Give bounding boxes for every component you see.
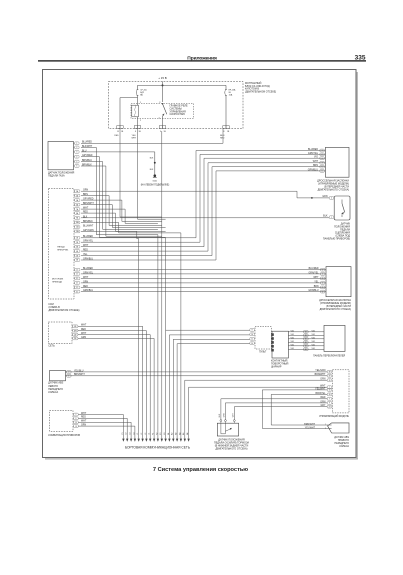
wire J5 pin to bus arrow x=131.1 — [78, 422, 131, 439]
svg-text:5B: 5B — [76, 255, 78, 257]
wire net BRN/YEL U1 pin10 to ABS right pin1 — [271, 394, 331, 425]
bus arrowhead x=150.2 — [149, 439, 151, 442]
pin 2 J1 — [75, 146, 80, 149]
wire from J2 pin 12A via band — [81, 231, 139, 438]
pin 16 P3 — [250, 333, 255, 336]
pin 2B J2 — [75, 241, 80, 244]
pin 2 J5 — [74, 413, 79, 416]
clock spring left pin 4 — [271, 345, 274, 348]
pin 12A J2 — [75, 230, 80, 233]
pin 10 U1 — [327, 393, 332, 396]
wire from J2 pin 8A via band — [81, 213, 166, 231]
svg-text:6: 6 — [76, 166, 77, 168]
svg-text:VIO: VIO — [291, 341, 295, 343]
wire +15 right branch — [163, 84, 227, 86]
svg-text:ПАНЕЛЬ ПЕРЕКЛЮЧАТЕЛЕЙ: ПАНЕЛЬ ПЕРЕКЛЮЧАТЕЛЕЙ — [313, 354, 345, 357]
wire clock spring row 3 — [288, 338, 324, 340]
bus arrowhead x=184.8 — [184, 439, 186, 442]
pin 18 J5 — [74, 425, 79, 428]
svg-text:C3: C3 — [130, 432, 132, 434]
svg-text:A3: A3 — [175, 433, 178, 435]
svg-text:L1: L1 — [137, 433, 139, 435]
pin 19 U1 — [327, 379, 332, 382]
svg-text:4: 4 — [76, 156, 77, 158]
wire BLU/RED fuse box to J1 pin1 — [81, 129, 223, 144]
wire net GRN U1 pin9 from pedal sensor pin2 — [225, 403, 327, 420]
svg-text:6B: 6B — [76, 260, 78, 262]
clock spring module — [272, 331, 288, 358]
pin R1 at x=220.9 — [220, 420, 222, 422]
svg-text:RED: RED — [220, 137, 225, 139]
svg-text:14: 14 — [75, 422, 77, 424]
pin 4 P2 — [320, 282, 325, 285]
wire branch to pin left — [120, 97, 138, 99]
connector J1 accel pedal sensor — [48, 142, 74, 170]
svg-text:VIO: VIO — [312, 348, 316, 350]
wire net C3 motor2 to actuator2 — [81, 277, 325, 279]
pin 4B J2 — [75, 250, 80, 253]
pin 6A J2 — [75, 203, 80, 206]
svg-text:1: 1 — [76, 143, 77, 145]
svg-text:WHT: WHT — [132, 137, 137, 139]
wire from J1 pin 2 via band — [81, 147, 158, 438]
bus arrowhead x=142.6 — [141, 439, 143, 442]
svg-text:A4: A4 — [178, 433, 181, 435]
pin 6 P2 — [320, 290, 325, 293]
svg-text:КОЛЕСА: КОЛЕСА — [48, 391, 58, 394]
wire net GRY U1 pin23 from pedal sensor pin3 — [234, 407, 327, 420]
pin 6 J1 — [75, 165, 80, 168]
wire net C1 motor2 to actuator2 — [81, 269, 325, 271]
pin 1 J4 — [67, 374, 72, 377]
wire +15 left branch — [138, 84, 163, 86]
connector pins 8/1B at x=137.5 — [134, 126, 137, 129]
pin 4 J1 — [75, 155, 80, 158]
svg-text:K1: K1 — [153, 433, 155, 435]
clock spring left pin 5 — [271, 349, 274, 352]
wire J5 pin to bus arrow x=127.2 — [78, 418, 127, 439]
svg-text:3B: 3B — [76, 246, 78, 248]
wire from J1 pin 4 via band — [81, 157, 166, 439]
clock spring left pin 2 — [271, 337, 274, 340]
wire steering row y=343.7 — [177, 343, 250, 345]
svg-text:3: 3 — [76, 152, 77, 154]
svg-text:C1: C1 — [122, 432, 124, 434]
svg-text:2: 2 — [76, 147, 77, 149]
pin 7 U1 — [327, 386, 332, 389]
svg-text:VIO: VIO — [291, 334, 295, 336]
svg-text:КОЛЕСА: КОЛЕСА — [339, 445, 349, 448]
wire J5 pin to bus arrow x=134.9 — [78, 426, 135, 439]
wire J1 pin3 to ground branch — [81, 151, 155, 153]
svg-text:ДВИГАТЕЛЬНОГО ОТСЕКА): ДВИГАТЕЛЬНОГО ОТСЕКА) — [320, 308, 352, 311]
relay K1 dashed outline — [131, 104, 194, 119]
svg-text:K3: K3 — [160, 433, 162, 435]
wire ground drop — [154, 152, 156, 176]
pin 4 P1 — [320, 161, 325, 164]
bus arrowhead x=180.9 — [180, 439, 182, 442]
pin 5 P2 — [320, 286, 325, 289]
wire net Z2 actuator1 to motor — [81, 154, 324, 242]
svg-text:G201: G201 — [152, 181, 157, 183]
svg-text:16: 16 — [251, 334, 253, 336]
svg-text:K4: K4 — [164, 433, 166, 435]
bus arrowhead x=154.1 — [153, 439, 155, 442]
fuse EF-15A — [225, 85, 227, 89]
wire net Z1 actuator1 to motor — [81, 151, 324, 238]
svg-text:ПРИВОДА: ПРИВОДА — [52, 281, 62, 284]
wire down x120 — [119, 98, 121, 126]
wire net C4 motor2 to actuator2 — [81, 282, 325, 284]
bus arrowhead x=134.9 — [134, 439, 136, 442]
bus arrowhead x=188.6 — [187, 439, 189, 442]
svg-text:ПУЛЬТ: ПУЛЬТ — [259, 351, 267, 353]
svg-text:A5: A5 — [182, 433, 185, 435]
pin 1 P1 — [320, 149, 325, 152]
frame shadow bottom — [45, 458, 358, 460]
svg-text:(НА ЛЕВОМ ПОДКРЫЛКЕ): (НА ЛЕВОМ ПОДКРЫЛКЕ) — [141, 183, 170, 186]
bus arrowhead x=165.6 — [164, 439, 166, 442]
pin 11F J3 — [73, 333, 78, 336]
pin 6 J5 — [74, 417, 79, 420]
diagram outer frame — [43, 70, 357, 458]
svg-text:15F: 15F — [74, 338, 77, 340]
wire clock spring row 6 — [288, 348, 324, 350]
pin 4 S1 — [329, 197, 334, 200]
pin 11 P3 — [250, 337, 255, 340]
svg-text:7 Система управления скоростью: 7 Система управления скоростью — [153, 467, 248, 473]
relay K1 coil — [132, 105, 139, 117]
pin 49 U1 — [327, 374, 332, 377]
svg-text:1: 1 — [140, 102, 141, 104]
svg-text:VIO: VIO — [312, 334, 316, 336]
connector J2 KCM dashed — [49, 189, 75, 300]
wire clock spring row 2 — [288, 334, 324, 336]
fuse box dashed outline — [109, 82, 244, 129]
pin 1 P2 — [320, 268, 325, 271]
svg-text:10: 10 — [329, 394, 331, 396]
svg-text:BLU/WHT: BLU/WHT — [83, 225, 94, 227]
pin 2 P1 — [320, 153, 325, 156]
wire net GRN U1 pin19 — [185, 380, 327, 439]
node +15V junction — [162, 84, 164, 86]
wire net YEL/BLU wheel sensor L to U1 pin48 — [66, 371, 328, 373]
pin 2 P2 — [320, 273, 325, 276]
pin 3A J2 — [75, 190, 80, 193]
pin 10A J2 — [75, 221, 80, 224]
control module U1 dashed — [332, 370, 349, 413]
pin 6C J2 — [75, 290, 80, 293]
svg-text:ПЕДАЛИ ГАЗА: ПЕДАЛИ ГАЗА — [48, 175, 65, 178]
wire net C5 motor2 to actuator2 — [81, 286, 325, 288]
frame shadow right — [356, 72, 358, 459]
pin 5B J2 — [75, 254, 80, 257]
svg-text:48: 48 — [329, 372, 331, 374]
connector P4 control panel — [324, 325, 345, 351]
wire from J2 pin 5A via band — [81, 200, 162, 221]
pin 9 U1 — [327, 402, 332, 405]
svg-text:A1: A1 — [167, 433, 170, 435]
svg-text:VIO: VIO — [291, 344, 295, 346]
wire J3 pin to bus arrow x=154.1 — [78, 338, 154, 438]
wire from J2 pin 6A via band — [81, 205, 166, 228]
connector P3 steering dashed — [255, 327, 271, 349]
bus arrowhead x=173.3 — [172, 439, 174, 442]
pin R1 at x=234.3 — [233, 420, 235, 422]
svg-text:2B: 2B — [76, 242, 78, 244]
connector J4 ABS sensor left — [50, 371, 66, 381]
wire net RED U1 pin7 from pedal sensor pin1 — [221, 399, 327, 420]
svg-text:3: 3 — [159, 102, 160, 104]
pin 5 P1 — [320, 165, 325, 168]
svg-text:1B: 1B — [76, 238, 78, 240]
pin 6 P1 — [320, 170, 325, 173]
pin 8A J2 — [75, 212, 80, 215]
wire relay pin5 down — [162, 116, 164, 126]
svg-text:L4: L4 — [149, 433, 151, 435]
pin R1 at x=225.4 — [224, 420, 226, 422]
svg-text:C2: C2 — [126, 432, 128, 434]
pin 48 U1 — [327, 370, 332, 373]
connector J5 cluster dashed — [50, 411, 74, 432]
pin 14 J5 — [74, 421, 79, 424]
svg-text:23: 23 — [329, 406, 331, 408]
svg-text:L3: L3 — [145, 433, 147, 435]
svg-text:ШАРНИР: ШАРНИР — [271, 365, 282, 368]
svg-text:5: 5 — [159, 117, 160, 119]
svg-text:BLK: BLK — [323, 216, 328, 218]
pin 7 U1 — [327, 397, 332, 400]
wire net Z4 actuator1 to motor — [81, 163, 324, 251]
pin 5C J2 — [75, 286, 80, 289]
svg-text:15: 15 — [329, 390, 331, 392]
svg-text:49: 49 — [329, 376, 331, 378]
wire J3 pin to bus arrow x=146.4 — [78, 331, 146, 439]
bus arrowhead x=127.2 — [126, 439, 128, 442]
svg-text:VIO: VIO — [291, 330, 295, 332]
pin 6B J2 — [75, 259, 80, 262]
svg-text:18: 18 — [75, 426, 77, 428]
pin 3C J2 — [75, 277, 80, 280]
svg-text:ДВИГАТЕЛЬНОГО ОТСЕКА): ДВИГАТЕЛЬНОГО ОТСЕКА) — [216, 448, 248, 451]
wire steering row y=334.9 — [169, 334, 249, 336]
svg-text:5: 5 — [76, 161, 77, 163]
svg-text:+ 15 В: + 15 В — [158, 76, 167, 80]
svg-text:11: 11 — [251, 339, 253, 341]
pin 2C J2 — [75, 273, 80, 276]
fuse CF-15k — [137, 85, 139, 89]
wire +15 down to relay pin3 — [162, 82, 164, 103]
wire from J2 pin 7A via band — [81, 209, 158, 223]
svg-text:9: 9 — [160, 131, 161, 133]
wire from fuse box RED via band — [120, 129, 162, 218]
svg-text:УПРАВЛЯЮЩИЙ МОДУЛЬ: УПРАВЛЯЮЩИЙ МОДУЛЬ — [319, 415, 349, 418]
header rule — [38, 60, 366, 62]
svg-text:RED: RED — [114, 135, 119, 137]
bus arrowhead x=131.1 — [130, 439, 132, 442]
svg-text:8: 8 — [252, 330, 253, 332]
wire J5 pin to bus arrow x=123.4 — [78, 415, 123, 439]
svg-text:C4: C4 — [133, 432, 135, 434]
svg-text:СКОРОСТЬЮ: СКОРОСТЬЮ — [170, 113, 186, 116]
wire net Z3 actuator1 to motor — [81, 158, 324, 247]
connector P2 throttle actuator lower — [326, 267, 351, 297]
pin 4A J2 — [75, 194, 80, 197]
svg-text:4: 4 — [331, 198, 332, 200]
svg-text:4B: 4B — [76, 251, 78, 253]
svg-text:VIO: VIO — [291, 337, 295, 339]
wire net Z6 actuator1 to motor — [81, 171, 324, 260]
svg-text:20: 20 — [251, 343, 253, 345]
svg-text:A2: A2 — [171, 433, 174, 435]
pin 3 P2 — [320, 277, 325, 280]
bus arrowhead x=138.7 — [138, 439, 140, 442]
pin 4C J2 — [75, 282, 80, 285]
svg-text:7: 7 — [329, 399, 330, 401]
svg-text:L2: L2 — [141, 433, 143, 435]
svg-text:VIO: VIO — [312, 330, 316, 332]
svg-text:11F: 11F — [74, 334, 77, 336]
pin 5 J1 — [75, 160, 80, 163]
svg-text:МОТОРЧИК: МОТОРЧИК — [52, 279, 64, 281]
wire J3 pin to bus arrow x=150.2 — [78, 335, 150, 439]
pin 9A J2 — [75, 217, 80, 220]
pin 1 S1 — [329, 216, 334, 219]
svg-text:ПРИКУРИВ.: ПРИКУРИВ. — [57, 250, 69, 252]
pin 1FB J3 — [73, 329, 78, 332]
wire clock spring row 5 — [288, 345, 324, 347]
pin 3 J1 — [75, 151, 80, 154]
wire net BLK clutch switch — [81, 217, 329, 219]
svg-text:КОМБИНАЦИЯ ПРИБОРОВ: КОМБИНАЦИЯ ПРИБОРОВ — [48, 434, 80, 437]
pin 5A J2 — [75, 199, 80, 202]
svg-text:ГНЕЗДО: ГНЕЗДО — [57, 247, 65, 249]
connector J3 dashed — [48, 322, 72, 344]
bus arrowhead x=169.4 — [168, 439, 170, 442]
wire steering row y=330.2 — [166, 329, 250, 331]
bus arrowhead x=177.1 — [176, 439, 178, 442]
pin 15 U1 — [327, 389, 332, 392]
bus arrowhead x=146.4 — [145, 439, 147, 442]
wire net Z5 actuator1 to motor — [81, 167, 324, 256]
wire clock spring row 1 — [288, 331, 324, 333]
wire steering row y=339.3 — [173, 338, 250, 340]
pin 23 U1 — [327, 405, 332, 408]
connector P5 ABS sensor right — [328, 423, 349, 433]
sensor R1 brake pedal position — [217, 423, 238, 436]
svg-text:ДВИГАТЕЛЬНОМ ОТСЕКЕ): ДВИГАТЕЛЬНОМ ОТСЕКЕ) — [49, 309, 80, 312]
wire clock spring row 4 — [288, 341, 324, 343]
svg-text:ПАНЕЛЬЮ ПРИБОРОВ): ПАНЕЛЬЮ ПРИБОРОВ) — [323, 237, 350, 240]
clock spring left pin 1 — [271, 333, 274, 336]
wire net BRN/WHT wheel sensor L to U1 pin49 — [66, 375, 328, 377]
pin 8 P3 — [250, 329, 255, 332]
svg-text:19: 19 — [329, 380, 331, 382]
svg-text:BLK: BLK — [83, 216, 88, 218]
bus arrowhead x=123.4 — [122, 439, 124, 442]
connector P1 throttle actuator upper — [325, 147, 349, 177]
svg-text:8: 8 — [135, 131, 136, 133]
pin 41F J3 — [73, 325, 78, 328]
wire net C2 motor2 to actuator2 — [81, 273, 325, 275]
pin 1 J1 — [75, 142, 80, 145]
svg-text:БОРТОВАЯ КОММУНИКАЦИОННАЯ СЕТЬ: БОРТОВАЯ КОММУНИКАЦИОННАЯ СЕТЬ — [125, 446, 190, 450]
pin 20 P3 — [250, 342, 255, 345]
svg-text:A6: A6 — [186, 433, 189, 435]
svg-text:8: 8 — [223, 131, 224, 133]
wire from fuse box YEL/WHT via band — [138, 129, 166, 220]
bus arrowhead x=161.8 — [161, 439, 163, 442]
wire from J1 pin 6 via band — [81, 166, 162, 236]
svg-text:VIO: VIO — [312, 344, 316, 346]
bus arrowhead x=157.9 — [157, 439, 159, 442]
wire from J2 pin 4A via band — [81, 196, 162, 226]
svg-text:15: 15 — [117, 131, 119, 133]
connector pins 15/1B at x=120 — [117, 126, 120, 129]
wire coil top stub — [137, 104, 139, 106]
svg-text:СЕТЬ: СЕТЬ — [48, 345, 55, 348]
node clutch GRN junction — [311, 197, 313, 199]
svg-text:2: 2 — [140, 120, 141, 122]
svg-text:1FB: 1FB — [74, 330, 77, 332]
svg-text:K2: K2 — [156, 433, 158, 435]
wire net C6 motor2 to actuator2 — [81, 291, 325, 293]
wire net YEL/WHT U1 pin15 to ABS right pin2 — [262, 390, 331, 429]
pin 3 P1 — [320, 157, 325, 160]
pin 7A J2 — [75, 208, 80, 211]
connector pins 9/1B at x=162.5 — [159, 126, 162, 129]
potentiometer R1 inner — [221, 423, 231, 434]
node splice S1 — [154, 162, 156, 164]
switch S1 symbol — [341, 200, 343, 204]
wire J3 pin to bus arrow x=142.6 — [78, 326, 143, 439]
wire from J1 pin 5 via band — [81, 162, 158, 230]
svg-text:(ДВИГАТЕЛЬНОМ ОТСЕКЕ): (ДВИГАТЕЛЬНОМ ОТСЕКЕ) — [245, 90, 276, 93]
relay switch contact — [162, 103, 163, 104]
svg-text:VIO: VIO — [312, 341, 316, 343]
svg-text:9: 9 — [329, 403, 330, 405]
switch S1 clutch pedal — [334, 196, 350, 220]
pin 3B J2 — [75, 245, 80, 248]
wire from J2 pin 10A via band — [81, 223, 181, 439]
svg-text:VIO: VIO — [291, 348, 295, 350]
svg-text:VIO: VIO — [312, 337, 316, 339]
pin 15F J3 — [73, 337, 78, 340]
pin 2 J4 — [67, 371, 72, 374]
wire relay pin5 to bus arrow — [161, 131, 163, 439]
clock spring left pin 3 — [271, 341, 274, 344]
svg-text:1: 1 — [331, 217, 332, 219]
connector pins 8/1B at x=226 — [223, 126, 226, 129]
wire coil pin2 down — [137, 117, 139, 126]
ground G201 — [154, 174, 157, 177]
wire net GRN clutch switch — [81, 191, 329, 198]
pin 11A J2 — [75, 226, 80, 229]
pin 1C J2 — [75, 268, 80, 271]
pin 1B J2 — [75, 236, 80, 239]
wire net WHT U1 pin7 — [189, 387, 328, 439]
svg-text:41F: 41F — [74, 326, 77, 328]
svg-text:ДВИГАТЕЛЬНОГО ОТСЕКА): ДВИГАТЕЛЬНОГО ОТСЕКА) — [318, 188, 350, 191]
